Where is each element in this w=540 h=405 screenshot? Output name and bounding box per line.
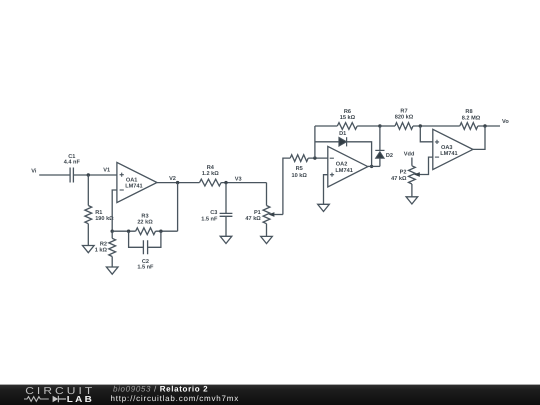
wire Vi to C1 [39,174,70,176]
wire D1 branch left [315,141,339,143]
wire OA2 noninverting to ground [324,175,328,205]
wire R2 to ground [111,257,113,268]
svg-text:LM741: LM741 [125,184,142,190]
ground under R2 [106,267,118,274]
op-amp OA3 [433,129,473,169]
wire R6 to D2 node [357,125,380,127]
wire R4 to P1 corner [221,182,266,184]
node R8/out dot [483,124,486,127]
svg-text:R8: R8 [465,109,472,115]
svg-text:P1: P1 [254,210,261,216]
ground OA2 [318,204,330,211]
svg-text:R7: R7 [400,108,407,114]
wire C3 to ground [225,216,227,236]
wire P1 to ground [266,224,268,237]
svg-text:Vo: Vo [502,119,509,125]
svg-text:190 kΩ: 190 kΩ [95,215,114,222]
resistor R7 [395,108,414,129]
wire node to R1 [87,175,89,206]
svg-text:15 kΩ: 15 kΩ [340,114,356,121]
svg-text:820 kΩ: 820 kΩ [395,114,414,121]
svg-text:LM741: LM741 [335,168,352,174]
node R7/R8 dot [419,124,422,127]
resistor R8 [460,109,481,129]
wire OA1 inverting input down [112,190,117,231]
wire down to P1 [266,183,268,206]
svg-text:LAB: LAB [67,394,94,404]
capacitor C1 [64,154,81,183]
svg-text:4.4 nF: 4.4 nF [64,160,81,166]
wire OA3 inverting to P2 wiper [419,157,432,174]
node R2/R3 junction dot [111,230,114,233]
wire node to R7 [380,125,395,127]
svg-text:D1: D1 [339,131,346,137]
svg-text:R1: R1 [95,210,102,216]
resistor R2 [95,238,116,256]
wire P1 wiper up to R5 [283,158,290,214]
wire OA2 output [368,165,380,167]
svg-text:1.5 nF: 1.5 nF [201,216,218,222]
potentiometer P1 [245,206,282,224]
svg-text:Vi: Vi [31,167,37,174]
svg-text:47 kΩ: 47 kΩ [391,175,407,182]
op-amp OA2 [328,146,368,187]
wire Vdd to P2 [411,158,413,166]
svg-text:C3: C3 [210,210,217,216]
svg-text:1.2 kΩ: 1.2 kΩ [202,170,219,177]
svg-text:OA2: OA2 [336,162,348,168]
wire P2 to ground [411,184,413,197]
wire R1 to ground [87,224,89,246]
svg-text:22 kΩ: 22 kΩ [137,218,153,225]
potentiometer P2 [391,166,420,184]
wire R3 to V2 drop [156,230,178,232]
resistor R6 [337,109,357,130]
node OA2 feedback dot [313,156,316,159]
wire C3 vertical [225,183,227,214]
capacitor C2 [137,240,154,270]
wire OA3 output up [473,126,485,149]
svg-text:P2: P2 [400,170,407,176]
resistor R1 [85,206,114,224]
node D2 top dot [378,124,381,127]
svg-text:D2: D2 [386,153,393,159]
node V2 dot [176,181,179,184]
wire R2 top [111,231,113,238]
resistor R3 [136,213,156,234]
svg-text:R5: R5 [296,166,303,172]
node V3 dot [224,181,227,184]
node OA2 output dot [370,165,373,168]
ground under C3 [220,236,232,243]
ground under P2 [406,197,418,204]
svg-text:LM741: LM741 [440,151,457,157]
logo resistor zigzag [24,397,49,402]
svg-text:V1: V1 [103,167,110,173]
svg-text:10 kΩ: 10 kΩ [292,172,308,179]
node C2 right junction dot [159,230,162,233]
svg-text:bio09053 / Relatorio 2: bio09053 / Relatorio 2 [113,385,208,394]
wire feedback vertical [314,126,316,158]
svg-text:V2: V2 [169,176,176,182]
op-amp OA1 [117,162,157,202]
svg-text:47 kΩ: 47 kΩ [245,215,261,222]
svg-text:V3: V3 [235,176,242,182]
capacitor C3 [201,210,232,222]
svg-text:8.2 MΩ: 8.2 MΩ [462,116,481,122]
wire to R6 [315,125,337,127]
wire C2 branch left [129,231,144,247]
wire R7 to R8 node [413,125,460,127]
wire OA1 output [157,182,200,184]
wire V2 vertical [177,183,179,232]
wire R5 to OA2 inverting input [308,157,328,159]
ground under R1 [83,246,95,253]
logo diode [53,396,59,403]
svg-text:Vdd: Vdd [404,150,415,157]
wire node down to OA3 + [420,126,433,142]
wire C2 branch right [148,231,161,247]
node junction V1 dot [87,173,90,176]
diode D1 [339,131,347,146]
wire junction to R3 [112,230,135,232]
ground under P1 [261,236,273,243]
node C2 left junction dot [127,230,130,233]
diode D2 [375,126,393,166]
wire R8 to Vo [478,125,500,127]
svg-text:OA3: OA3 [441,145,453,151]
svg-text:1 kΩ: 1 kΩ [95,246,108,253]
resistor R5 [290,155,308,179]
wire D1 to output drop [347,142,372,167]
wire C1 to OA1 + input [73,174,117,176]
svg-text:http://circuitlab.com/cmvh7mx: http://circuitlab.com/cmvh7mx [111,394,240,403]
resistor R4 [200,165,222,186]
svg-text:1.5 nF: 1.5 nF [137,265,154,271]
